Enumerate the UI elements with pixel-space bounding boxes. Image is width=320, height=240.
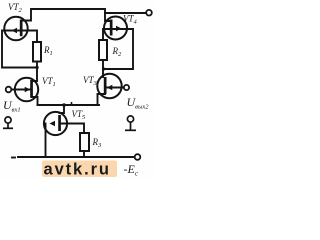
wire VT4 left lead to R2 top [103,29,133,40]
wire VT5 base step to mid rail [60,105,65,113]
transistor VT2 [2,17,38,40]
wire VT5 left lead down to bottom rail [44,124,46,158]
wire top-right supply line to terminal [105,12,146,14]
svg-text:R3: R3 [92,137,103,149]
transistor VT1 [15,78,38,101]
svg-text:-Ec: -Ec [124,162,139,178]
wire VT2 collector step to top rail [21,9,111,21]
wire bottom negative rail [18,156,134,158]
svg-text:Uвых2: Uвых2 [127,95,150,111]
svg-text:R1: R1 [43,45,53,57]
wire VT1 emitter down to mid rail [32,97,38,105]
svg-text:VT2: VT2 [8,2,23,14]
wire VT3 base to output terminal [105,87,124,89]
watermark background [42,161,117,178]
transistor VT4 [103,17,133,40]
terminal VT3 base output [124,85,129,90]
wire mid emitter rail [38,104,100,106]
wire R2 bottom down to VT3 collector [102,60,104,77]
wire VT1 base lead from input terminal [12,89,32,91]
junction node at VT5 base on mid rail [62,103,66,107]
terminal -Ec bottom right [135,154,141,160]
junction node at R1/VT1 collector [35,66,38,69]
svg-text:R2: R2 [112,46,123,58]
input reference terminal symbol [3,117,13,128]
terminal +supply top right [146,10,152,16]
wire R3 bottom to rail [83,151,85,157]
terminal VT1 base input [6,87,12,93]
resistor R2 [99,40,107,60]
output reference terminal symbol [125,116,136,130]
wire VT3 emitter down to mid rail [98,94,106,105]
svg-text:VT5: VT5 [72,109,87,121]
wire VT5 right lead to R3 [60,124,85,134]
wire bottom rail left dash [12,157,15,159]
transistor VT3 [97,74,121,98]
svg-text:avtk.ru: avtk.ru [44,161,111,179]
svg-text:VT3: VT3 [83,75,98,87]
resistor R1 [33,42,41,62]
wire R1 bottom to VT1 collector [32,61,38,81]
wire VT2 emitter line and left rail down [2,31,37,68]
junction node at R2/VT4 [102,67,105,70]
wire R2 bottom to VT4 right lead [103,29,133,69]
resistor R3 [80,133,89,151]
svg-text:VT1: VT1 [42,76,56,88]
svg-text:Uвх1: Uвх1 [3,98,21,114]
junction stub artifact [71,103,73,105]
transistor VT5 [44,112,67,135]
